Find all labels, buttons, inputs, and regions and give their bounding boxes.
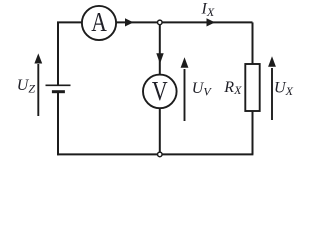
wire: bottom rail	[57, 153, 253, 155]
wire: resistor to bottom-right corner	[252, 111, 254, 154]
svg-text:RX: RX	[223, 79, 242, 97]
voltage arrow U_V (up)	[181, 57, 189, 121]
ammeter A	[82, 6, 116, 40]
node A (top junction)	[158, 20, 163, 25]
voltage arrow U_Z (up)	[34, 53, 42, 116]
wire: battery to bottom-left corner	[57, 92, 59, 155]
current arrowhead after ammeter	[125, 18, 134, 26]
battery source (short thick plate)	[52, 90, 65, 93]
svg-text:A: A	[91, 7, 107, 37]
svg-text:UZ: UZ	[17, 77, 36, 96]
node B (bottom junction)	[158, 152, 163, 157]
resistor R_X	[245, 64, 259, 111]
wire: voltmeter to node B	[159, 108, 161, 153]
wire: ammeter to node A	[116, 21, 158, 23]
svg-text:V: V	[152, 76, 168, 106]
voltage arrow U_X (up)	[268, 56, 276, 120]
battery source (long plate)	[46, 84, 71, 86]
wire: top-left corner to ammeter	[58, 22, 82, 85]
wire: right side, corner down to resistor R_X	[252, 22, 254, 64]
svg-text:UX: UX	[274, 80, 294, 99]
current arrowhead I_X	[207, 18, 216, 26]
arrowhead on voltmeter branch (pointing down)	[156, 53, 163, 63]
wire: node A down to voltmeter	[159, 24, 161, 75]
svg-text:UV: UV	[192, 80, 213, 99]
wire: node A to top-right corner	[162, 21, 253, 23]
voltmeter V	[143, 75, 177, 109]
svg-text:IX: IX	[201, 1, 215, 19]
